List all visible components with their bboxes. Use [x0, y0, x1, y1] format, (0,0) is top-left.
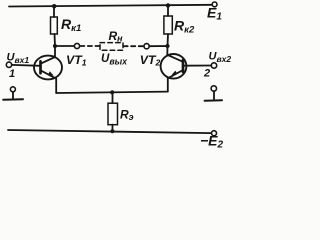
svg-text:Rн: Rн: [109, 29, 124, 44]
junction dot node at Rk1/top rail: [52, 4, 56, 8]
terminal E1: [212, 2, 217, 7]
resistor Rn dashed outline: [100, 43, 123, 51]
wire Rk1 bottom lead: [54, 34, 57, 46]
wire top supply rail: [9, 5, 212, 7]
svg-text:Rк2: Rк2: [174, 18, 195, 36]
junction dot node emitter rail / Re: [110, 90, 114, 94]
wire emitter VT2 down: [167, 78, 169, 91]
terminal input 2: [211, 63, 216, 68]
svg-text:E1: E1: [207, 5, 222, 23]
wire base lead VT2: [183, 65, 211, 67]
junction dot node at Rk2/top rail: [166, 3, 170, 7]
wire Rk1 top lead: [53, 6, 55, 17]
svg-text:Rк1: Rк1: [61, 16, 81, 34]
wire Re bottom lead: [111, 125, 113, 132]
transistor VT1: [34, 56, 62, 80]
junction dot node collector VT2: [165, 44, 169, 48]
junction dot node collector VT1: [53, 44, 57, 48]
svg-text:Uвх2: Uвх2: [209, 51, 232, 65]
svg-text:2: 2: [203, 68, 210, 80]
wire collector VT1 to output tap: [55, 46, 74, 57]
terminal -E2: [212, 131, 217, 136]
wire Rk2 top lead: [167, 5, 169, 16]
resistor Rk2: [164, 16, 172, 34]
svg-text:Uвых: Uвых: [101, 53, 128, 67]
resistor Re: [108, 103, 118, 125]
wire output tap to collector VT2: [150, 46, 168, 55]
wire emitter rail: [56, 92, 168, 93]
junction dot node Re / bottom rail: [110, 129, 114, 133]
wire Rk2 bottom lead: [167, 34, 170, 46]
wire dashed to Rn left: [80, 45, 100, 47]
ground chassis symbol right: [205, 86, 222, 101]
resistor Rk1: [51, 17, 58, 34]
terminal output left: [74, 43, 79, 48]
wire Re top lead: [112, 92, 114, 103]
svg-text:VT2: VT2: [140, 53, 161, 68]
svg-text:Rэ: Rэ: [120, 108, 134, 123]
transistor VT2: [161, 54, 187, 79]
terminal output right: [144, 44, 149, 49]
wire emitter VT1 down: [55, 79, 57, 93]
wire bottom supply rail: [8, 130, 211, 133]
svg-text:−E2: −E2: [200, 133, 224, 151]
svg-text:VT1: VT1: [66, 53, 87, 68]
wire base lead VT1: [12, 64, 41, 67]
svg-text:1: 1: [9, 68, 15, 80]
ground chassis symbol left: [3, 87, 23, 100]
wire dashed to Rn right: [124, 45, 144, 47]
svg-text:Uвх1: Uвх1: [7, 52, 30, 66]
terminal input 1: [6, 62, 11, 67]
